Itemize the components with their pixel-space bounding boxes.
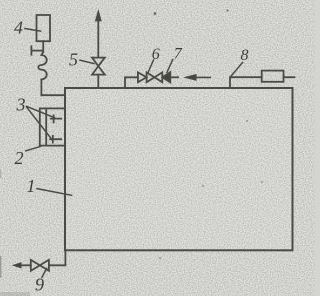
- leader line 1: [37, 189, 72, 196]
- filter 8 body: [262, 71, 284, 82]
- svg-text:6: 6: [152, 46, 160, 63]
- leader line 9: [42, 268, 47, 277]
- holder inner wall: [45, 108, 47, 145]
- leader line 6: [148, 60, 154, 73]
- valve 7 cone (filled): [162, 72, 170, 82]
- leader line 2: [26, 146, 41, 150]
- svg-text:7: 7: [174, 46, 183, 63]
- device 4 body: [37, 15, 51, 41]
- svg-text:4: 4: [14, 18, 23, 38]
- electrode 3 upper: [51, 115, 61, 122]
- pipe to drain arrow: [21, 264, 31, 266]
- tick contact on wire: [31, 46, 43, 54]
- tank interior shade: [66, 89, 292, 249]
- pipe riser to filter 8: [230, 77, 262, 88]
- valve 9: [31, 260, 49, 271]
- vent arrow: [96, 11, 102, 21]
- valve 5: [92, 58, 105, 75]
- wire from device 4 down: [42, 41, 44, 52]
- leader line 7: [167, 60, 173, 73]
- svg-text:5: 5: [69, 50, 78, 70]
- svg-text:1: 1: [27, 176, 36, 196]
- stub pipe after valve 7: [170, 76, 178, 78]
- drain arrow: [13, 263, 21, 268]
- vent pipe of valve 5: [97, 21, 99, 89]
- pipe after filter 8: [284, 76, 295, 78]
- svg-text:9: 9: [35, 275, 44, 295]
- electrode 3 lower: [50, 136, 61, 143]
- scan edge artifacts: [0, 170, 30, 296]
- valve 6: [147, 72, 163, 82]
- tank 1: [65, 88, 293, 250]
- pipe riser to valve 6: [125, 77, 138, 88]
- electrode holder 2 box: [40, 108, 65, 145]
- svg-text:2: 2: [15, 148, 24, 168]
- inlet flow arrow: [186, 75, 210, 80]
- scan specks: [154, 10, 263, 259]
- svg-text:8: 8: [241, 47, 249, 64]
- wire from coil to tank: [41, 79, 65, 95]
- leader lines 3: [27, 106, 55, 140]
- leader line 8: [231, 63, 242, 76]
- coil spring: [38, 52, 46, 79]
- drain pipe: [49, 250, 66, 265]
- svg-text:3: 3: [16, 94, 26, 114]
- leader line 4: [25, 29, 41, 32]
- check cone: [138, 72, 147, 82]
- leader line 5: [80, 60, 94, 63]
